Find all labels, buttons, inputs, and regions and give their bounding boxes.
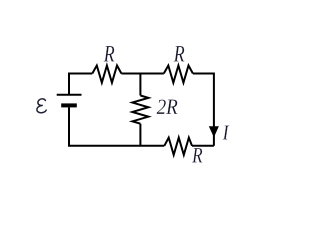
label emf: [37, 99, 46, 113]
wire R1 to R2: [121, 73, 163, 75]
wire R2 to top-right corner down right rail: [193, 74, 214, 146]
resistor R2: [164, 66, 193, 83]
wire bottom-right corner to R3: [192, 145, 214, 147]
svg-text:R: R: [191, 144, 202, 169]
resistor R1: [92, 66, 121, 83]
current arrow I: [209, 126, 219, 137]
battery EMF: top plate: [57, 94, 82, 96]
svg-text:I: I: [222, 122, 230, 145]
resistor 2R: [132, 96, 148, 124]
resistor R3: [164, 138, 192, 155]
wire 2R to bottom junction: [139, 124, 141, 146]
battery EMF: bottom plate: [61, 103, 77, 107]
wire bottom to left rail up to battery: [69, 107, 164, 145]
wire top-left corner to R1: [69, 74, 92, 95]
svg-text:R: R: [103, 42, 115, 67]
svg-text:R: R: [173, 42, 185, 67]
node junction top middle: [139, 74, 141, 96]
svg-text:2R: 2R: [157, 96, 179, 119]
